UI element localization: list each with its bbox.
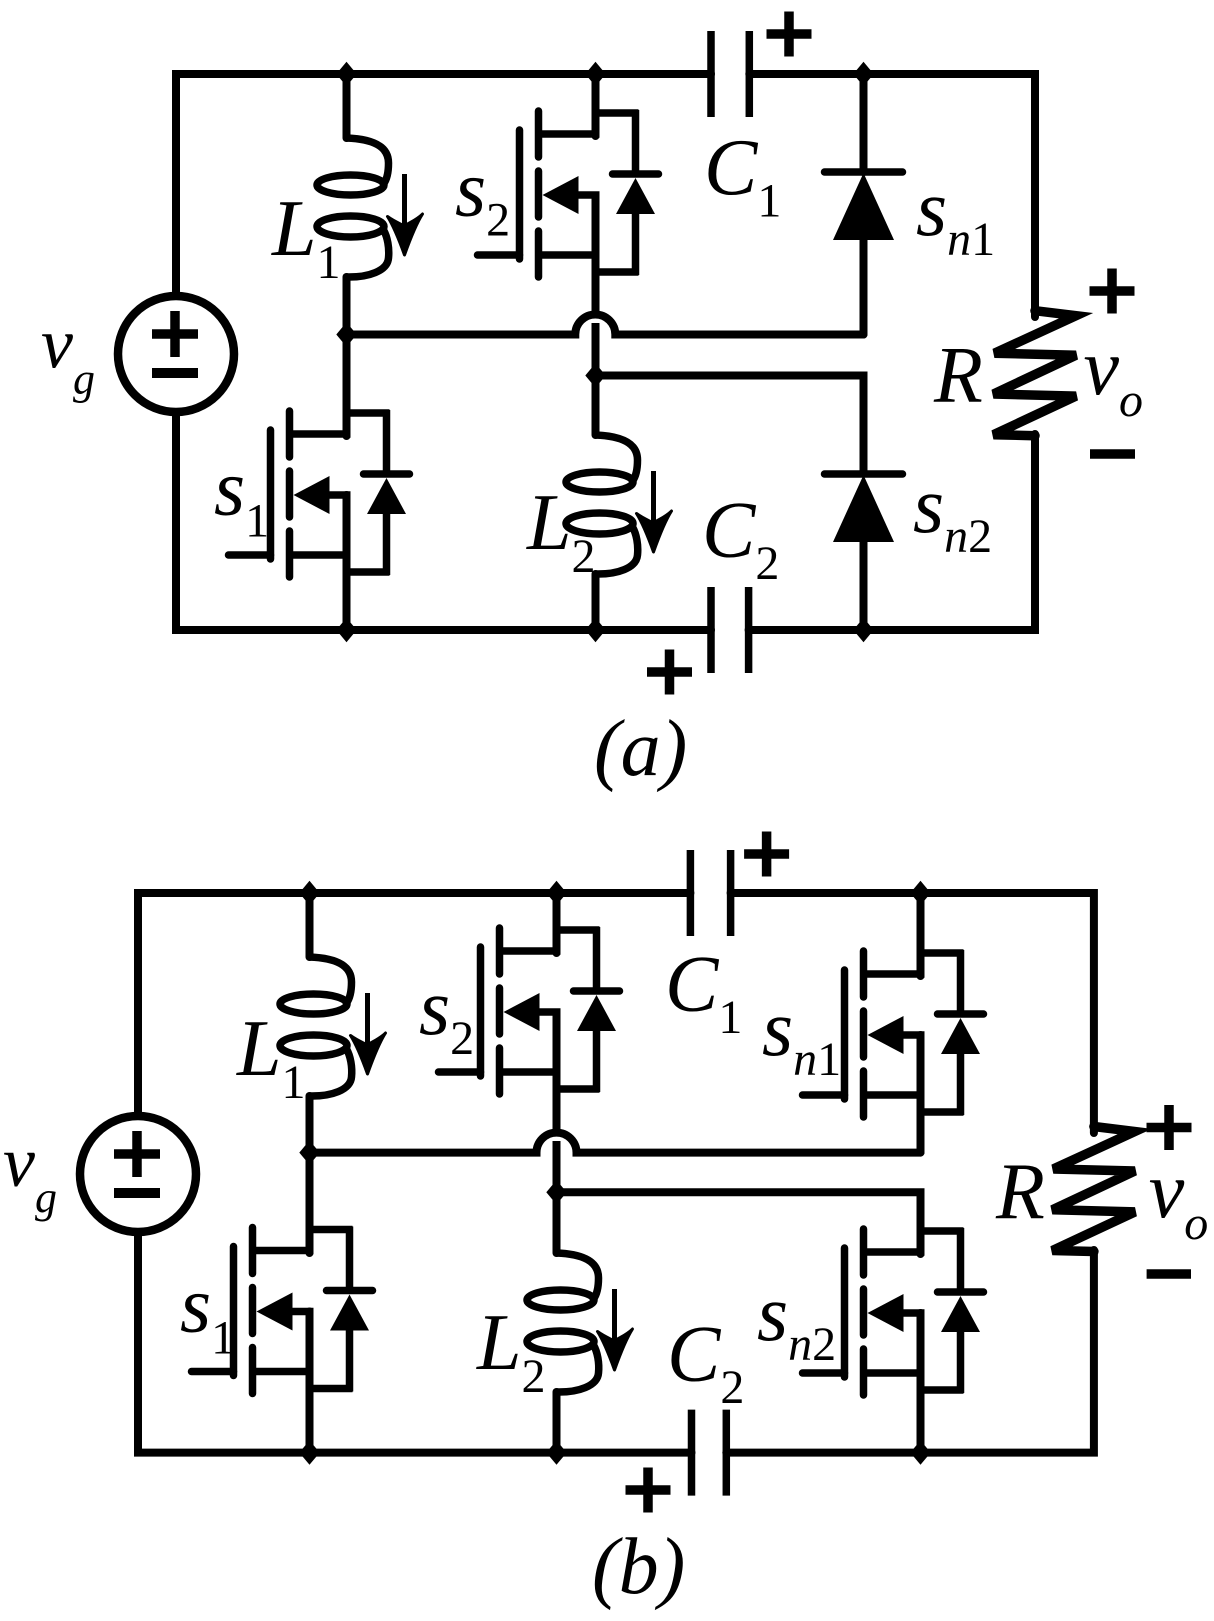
wire Sn1 top (a) — [860, 74, 868, 172]
node A below L1 (b) — [299, 1140, 319, 1164]
wire 2 (a) — [596, 376, 864, 473]
wire top rail right (b) — [731, 893, 1094, 1133]
transistor S1 (b) — [192, 1227, 373, 1394]
vo polarity - (b) — [1147, 1269, 1191, 1279]
wire 1 with hop (b) — [310, 1133, 921, 1153]
inductor L1 (b) — [280, 957, 352, 1096]
node B wire2 (a) — [585, 363, 605, 387]
label R (a) — [933, 332, 983, 420]
wire S1 source (b) — [306, 1312, 314, 1453]
label sn1 (a) — [916, 165, 995, 266]
label vg (a) — [41, 304, 95, 404]
wire S2 drain (b) — [553, 893, 561, 953]
label sn1 (b) — [762, 985, 841, 1086]
label L2 (a) — [526, 479, 596, 583]
wire top rail left (a) — [176, 74, 711, 294]
transistor Sn2 (b) — [803, 1228, 984, 1395]
voltage source vg (a) — [118, 296, 234, 412]
vo polarity + (b) — [1147, 1105, 1192, 1150]
wire below hop to node (b) — [553, 1141, 561, 1192]
inductor L2 (b) — [527, 1253, 599, 1392]
wire S2 source to hop (a) — [592, 195, 600, 311]
node bottom S1 (a) — [336, 618, 356, 642]
label s1 (a) — [214, 445, 269, 548]
label C2 (a) — [702, 487, 779, 590]
wire Sn1 drain (b) — [917, 893, 925, 976]
node top Sn1 (a) — [853, 62, 873, 86]
wire Sn2 source (b) — [917, 1313, 925, 1453]
inductor L1 (a) — [317, 138, 389, 277]
wire L2 top (a) — [592, 376, 600, 436]
vo polarity - (a) — [1090, 449, 1135, 459]
wire Sn2 bottom (a) — [860, 542, 868, 630]
C1 polarity + (b) — [744, 832, 789, 877]
vo polarity + (a) — [1090, 269, 1135, 314]
wire S2 source to hop (b) — [553, 1012, 561, 1129]
label sn2 (b) — [757, 1270, 836, 1371]
svg-text:R: R — [995, 1148, 1045, 1236]
svg-text:(b): (b) — [592, 1523, 685, 1611]
diode Sn1 (a) — [825, 172, 903, 240]
voltage source vg (b) — [80, 1116, 196, 1232]
wire bottom rail right (b) — [726, 1250, 1094, 1453]
wire S2 drain (a) — [592, 74, 600, 136]
label s2 (b) — [419, 964, 474, 1065]
label (a) — [594, 705, 687, 793]
wire L2 top (b) — [553, 1192, 561, 1253]
wire L2 bottom (a) — [592, 574, 600, 630]
diode Sn2 (a) — [825, 474, 903, 542]
label L1 (b) — [236, 1005, 306, 1109]
C2 polarity + (a) — [647, 650, 692, 695]
node top S2 (b) — [546, 881, 566, 905]
capacitor C1 (b) — [690, 850, 730, 936]
wire L1 to S1 drain (b) — [306, 1096, 314, 1253]
wire Sn1 source (b) — [917, 1035, 925, 1153]
label L2 (b) — [476, 1299, 546, 1403]
wire S1 source (a) — [343, 495, 351, 630]
wire L1 top (a) — [343, 74, 351, 138]
wire vg to bottom rail (b) — [138, 1236, 692, 1453]
transistor S2 (a) — [478, 110, 659, 277]
node bottom Sn2 (a) — [853, 618, 873, 642]
label vo (a) — [1084, 324, 1144, 427]
label s2 (a) — [455, 146, 510, 247]
current arrow L2 (a) — [637, 471, 672, 552]
wire 1 with hop (a) — [347, 315, 864, 335]
wire Sn1 bottom (a) — [860, 240, 868, 335]
transistor S2 (b) — [439, 927, 620, 1094]
label R (b) — [995, 1148, 1045, 1236]
svg-text:R: R — [933, 332, 983, 420]
label (b) — [592, 1523, 685, 1611]
label C1 (b) — [665, 941, 742, 1044]
capacitor C1 (a) — [711, 31, 749, 117]
svg-text:(a): (a) — [594, 705, 687, 793]
node top Sn1 (b) — [910, 881, 930, 905]
C2 polarity + (b) — [626, 1468, 671, 1513]
node top L1 (b) — [299, 881, 319, 905]
label C1 (a) — [704, 125, 781, 228]
wire below hop to node (a) — [592, 323, 600, 376]
transistor Sn1 (b) — [803, 950, 984, 1117]
wire L1 top (b) — [306, 893, 314, 957]
transistor S1 (a) — [229, 410, 410, 577]
node bottom S1 (b) — [299, 1440, 319, 1464]
node bottom L2 (a) — [585, 618, 605, 642]
wire 2 (b) — [557, 1192, 921, 1254]
current arrow L1 (b) — [351, 993, 386, 1074]
label vg (b) — [3, 1122, 57, 1222]
node top S2 (a) — [585, 62, 605, 86]
resistor R (b) — [1052, 1127, 1135, 1252]
label vo (b) — [1149, 1147, 1209, 1250]
label C2 (b) — [667, 1311, 744, 1414]
node top L1 (a) — [336, 62, 356, 86]
resistor R (a) — [994, 311, 1077, 436]
capacitor C2 (a) — [711, 587, 749, 673]
node A below L1 (a) — [336, 322, 356, 346]
wire L1 to S1 drain (a) — [343, 277, 351, 436]
node B wire2 (b) — [546, 1180, 566, 1204]
C1 polarity + (a) — [767, 12, 812, 57]
wire L2 bottom (b) — [553, 1392, 561, 1453]
label s1 (b) — [180, 1262, 235, 1365]
current arrow L2 (b) — [598, 1289, 633, 1370]
label L1 (a) — [271, 185, 341, 289]
current arrow L1 (a) — [388, 174, 423, 255]
wire vg to bottom rail (a) — [176, 416, 711, 630]
inductor L2 (a) — [566, 435, 638, 574]
node bottom Sn2 (b) — [910, 1440, 930, 1464]
label sn2 (a) — [913, 462, 992, 563]
node bottom L2 (b) — [546, 1440, 566, 1464]
wire top rail right (a) — [749, 74, 1035, 317]
wire top rail left (b) — [138, 893, 690, 1114]
wire bottom rail right (a) — [749, 434, 1035, 630]
capacitor C2 (b) — [692, 1410, 727, 1496]
